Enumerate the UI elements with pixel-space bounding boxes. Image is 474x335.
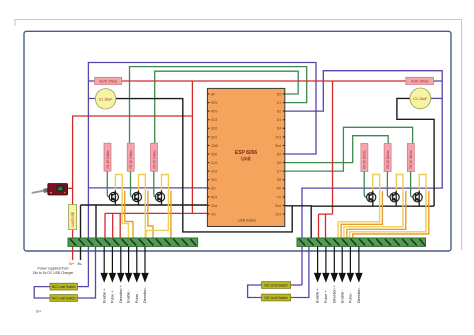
svg-text:D4: D4	[277, 127, 281, 131]
switch limit LS4 right	[262, 294, 291, 301]
svg-text:R2 1K Ohms: R2 1K Ohms	[129, 150, 133, 169]
svg-text:D0: D0	[277, 92, 281, 96]
wire purple right limit switch C loop	[248, 285, 262, 298]
node output labels left	[102, 285, 147, 303]
wire green R2 to Q2 base	[131, 171, 134, 197]
svg-text:Pulse +: Pulse +	[111, 291, 115, 303]
wire purple stub right resistor label	[434, 80, 443, 82]
wire yellow Q3 collector arch	[146, 175, 168, 239]
svg-text:Enable +: Enable +	[316, 288, 320, 303]
svg-text:5v+: 5v+	[36, 310, 42, 314]
wire yellow Q6 collector arch	[350, 175, 426, 239]
svg-text:Pulse -: Pulse -	[135, 291, 139, 303]
resistor R4	[361, 144, 368, 172]
resistor R3	[151, 143, 158, 171]
svg-text:C1 10uF: C1 10uF	[99, 97, 114, 101]
fuse F1	[69, 205, 77, 230]
svg-text:D3: D3	[277, 118, 281, 122]
svg-text:CMD: CMD	[211, 144, 219, 148]
wire black left emitter bus to ESP Gnd	[81, 204, 208, 206]
svg-text:Pulse -: Pulse -	[349, 291, 353, 303]
svg-text:N/C Limit Switch: N/C Limit Switch	[264, 284, 288, 288]
resistor R1	[104, 143, 111, 171]
wire green outer loop ESP D1 to resistor R2	[130, 67, 307, 144]
node output labels right	[316, 285, 361, 303]
wire green R1 to Q1 base	[107, 171, 110, 197]
wire purple stub right capacitor C2	[431, 97, 443, 99]
resistor label RL1 4u7K Ohms left	[95, 77, 122, 84]
wire purple stub to capacitor C1 left	[88, 98, 96, 100]
transistor Q6	[413, 191, 422, 206]
switch limit LS3 right	[262, 282, 291, 289]
svg-text:R1 1K Ohms: R1 1K Ohms	[106, 150, 110, 169]
wire purple left net: top loop to ESP D5	[88, 63, 316, 287]
svg-text:Enable -: Enable -	[127, 288, 131, 303]
svg-text:Gnd: Gnd	[211, 204, 217, 208]
svg-text:CLK: CLK	[211, 161, 218, 165]
wire purple branch to ESP EN pin	[88, 187, 207, 189]
svg-text:Unit: Unit	[241, 157, 251, 163]
wire orange Q4 pair	[341, 191, 382, 238]
svg-text:SD2: SD2	[211, 127, 217, 131]
wire black bus drop second	[95, 205, 97, 238]
wire orange Q5 pair	[347, 191, 406, 238]
svg-text:R5 1K Ohms: R5 1K Ohms	[386, 150, 390, 169]
wire red right comb	[319, 81, 333, 238]
svg-text:A0: A0	[211, 92, 215, 96]
svg-text:R4 1K Ohms: R4 1K Ohms	[363, 150, 367, 169]
svg-text:Direction +: Direction +	[119, 285, 123, 303]
capacitor C2 right	[410, 88, 431, 109]
node terminal strip right	[297, 238, 426, 246]
border frame of schematic	[24, 31, 451, 251]
svg-text:C1 10uF: C1 10uF	[413, 97, 428, 101]
svg-text:D8: D8	[277, 178, 281, 182]
wire purple right net: ESP D2 loop to right cluster	[285, 71, 442, 285]
wire green R3 to Q3 base	[154, 171, 157, 197]
wire output arrows left group	[101, 247, 148, 281]
wire purple right limit switch 1 link	[291, 284, 302, 286]
switch S1 toggle	[33, 184, 68, 196]
wire black right gnd from ESP	[285, 206, 311, 238]
pin ticks U1 both sides	[207, 94, 284, 214]
svg-text:L/A FUSE: L/A FUSE	[71, 211, 75, 226]
wire green R6 to Q6 base	[411, 172, 414, 198]
svg-text:R3 1K Ohms: R3 1K Ohms	[152, 150, 156, 169]
svg-text:SD3: SD3	[211, 118, 217, 122]
svg-text:Direction -: Direction -	[357, 285, 361, 303]
svg-text:D5: D5	[277, 152, 281, 156]
wire faint outer blue loop	[15, 20, 462, 251]
wire black bus drop left end	[80, 205, 82, 260]
svg-text:D6: D6	[277, 161, 281, 165]
wire orange Q2 pair	[148, 191, 153, 239]
svg-text:R6 1K Ohms: R6 1K Ohms	[409, 150, 413, 169]
svg-text:Vin: Vin	[211, 212, 216, 216]
wire green R5 to Q5 base	[387, 172, 390, 198]
svg-text:Pulse +: Pulse +	[324, 291, 328, 303]
svg-text:D1: D1	[277, 101, 281, 105]
wire yellow Q1 collector arch	[115, 175, 128, 239]
wire red switch loop	[73, 116, 192, 260]
svg-text:4u7K Ohms: 4u7K Ohms	[99, 80, 117, 84]
wire green R4 to Q4 base	[364, 172, 367, 198]
resistor label RL2 4u7K Ohms right	[406, 77, 434, 84]
svg-text:3V3: 3V3	[275, 135, 281, 139]
wire black right emitter bus	[311, 205, 434, 207]
svg-text:Enable +: Enable +	[102, 288, 106, 303]
wire red drop to Vin and left feed comb	[105, 81, 207, 238]
svg-text:RST: RST	[211, 195, 217, 199]
svg-text:N/C Limit Switch: N/C Limit Switch	[52, 285, 76, 289]
pin labels U1 left side	[211, 92, 219, 216]
wire yellow Q5 collector arch	[344, 175, 403, 239]
wire orange Q1 pair	[125, 191, 133, 239]
svg-text:USB Socket: USB Socket	[238, 218, 256, 222]
node terminal strip left	[68, 238, 198, 246]
svg-text:5v-: 5v-	[78, 262, 83, 266]
resistor R6	[407, 144, 414, 172]
svg-text:D7: D7	[277, 170, 281, 174]
svg-text:RSV: RSV	[211, 101, 218, 105]
svg-text:N/C Limit Switch: N/C Limit Switch	[264, 296, 288, 300]
wire green inner loop ESP D0 to resistor R3	[155, 71, 299, 143]
wire orange Q3 pair	[170, 191, 172, 239]
resistor R5	[384, 144, 391, 172]
svg-text:Enable -: Enable -	[340, 288, 344, 303]
transistor Q2	[132, 191, 141, 206]
svg-text:Gnd: Gnd	[275, 204, 281, 208]
svg-text:ESP 8266: ESP 8266	[235, 150, 258, 156]
wire red switch stub	[68, 187, 73, 189]
wire output arrows right group	[315, 247, 362, 281]
node power supply note	[33, 267, 75, 276]
svg-text:Direction +: Direction +	[332, 285, 336, 303]
wire yellow Q4 collector arch	[338, 175, 380, 239]
svg-text:RSV: RSV	[211, 110, 218, 114]
wire black C1 to ground staircase under ESP	[116, 99, 293, 232]
svg-text:Gnd: Gnd	[275, 144, 281, 148]
switch limit LS1 left	[50, 283, 78, 290]
wire purple left limit switch 2 riser	[78, 246, 96, 298]
wire yellow Q2 collector arch	[139, 175, 146, 239]
transistor Q1	[109, 191, 118, 206]
wire orange Q6 pair	[353, 191, 429, 238]
svg-text:88: 88	[59, 187, 63, 191]
svg-text:Gnd: Gnd	[211, 170, 217, 174]
svg-text:SD0: SD0	[211, 152, 217, 156]
wire purple right limit switch 2 riser	[291, 246, 309, 297]
svg-text:24v to 5v DC USB Charger: 24v to 5v DC USB Charger	[33, 271, 75, 275]
resistor R2	[127, 143, 134, 171]
wire green ESP D6 to resistor R5	[285, 136, 388, 163]
pin labels U1 right side	[275, 92, 282, 216]
svg-text:Direction -: Direction -	[143, 285, 147, 303]
svg-text:Power supplied from: Power supplied from	[38, 267, 69, 271]
svg-text:N/C Limit Switch: N/C Limit Switch	[52, 297, 76, 301]
svg-text:3V3: 3V3	[275, 212, 281, 216]
wire red top rail between resistor labels	[122, 80, 406, 82]
svg-text:3V3: 3V3	[211, 178, 217, 182]
wire green ESP D7 to resistor R6	[285, 127, 413, 171]
wire purple left limit switch 1 link	[78, 286, 89, 288]
svg-text:5v+: 5v+	[69, 262, 75, 266]
capacitor C1 left	[95, 89, 115, 109]
wire black C2 loop to right bus	[397, 98, 434, 206]
svg-text:SD1: SD1	[211, 135, 217, 139]
wire purple stub to resistor label left	[88, 80, 94, 82]
op-amp U1 ESP 8266 Unit module body	[207, 88, 284, 226]
transistor Q3	[155, 191, 164, 206]
svg-text:EN: EN	[211, 187, 216, 191]
transistor Q4	[367, 191, 376, 206]
wire purple left limit switch C loop	[34, 287, 50, 298]
svg-text:D2: D2	[277, 110, 281, 114]
svg-text:4u7K Ohms: 4u7K Ohms	[411, 80, 429, 84]
transistor Q5	[390, 191, 399, 206]
switch limit LS2 left	[50, 295, 78, 302]
